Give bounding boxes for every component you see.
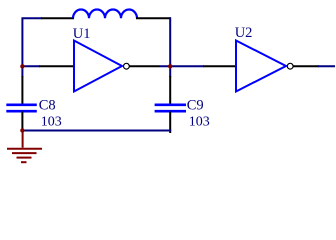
node junction ground [20, 128, 24, 132]
op-amp U2 inverter triangle [236, 41, 286, 92]
inductor right pin [136, 17, 171, 19]
C9 bottom pin [169, 112, 171, 134]
svg-text:C8: C8 [39, 98, 56, 114]
svg-text:U2: U2 [235, 25, 253, 41]
node junction left rail / U1 input [20, 64, 24, 68]
wire bottom (C9 to ground node) [22, 130, 171, 132]
svg-text:103: 103 [189, 115, 210, 130]
U1 input pin [39, 65, 74, 67]
wire right rail upper [169, 17, 171, 77]
U1 output bubble [124, 63, 130, 69]
U1 output pin [129, 65, 159, 67]
wire feedback to U1 input [22, 65, 40, 67]
inductor L1 [73, 9, 137, 18]
C9 top pin [169, 76, 171, 104]
svg-text:U1: U1 [73, 26, 91, 42]
wire U1 output to U2 input [159, 65, 204, 67]
U2 input pin [203, 65, 236, 67]
wire output right [318, 65, 335, 67]
wire top-left (corner + left rail upper segment) [22, 18, 42, 77]
inductor left pin [41, 17, 74, 19]
node junction right rail / U1 output [168, 64, 172, 68]
C8 top pin [21, 76, 23, 104]
svg-text:C9: C9 [187, 98, 204, 114]
C8 bottom pin [21, 112, 23, 130]
svg-text:103: 103 [41, 115, 62, 130]
capacitor C9 [155, 105, 186, 111]
ground [7, 131, 42, 163]
U2 output bubble [287, 63, 293, 69]
U2 output pin [293, 65, 319, 67]
capacitor C8 [6, 105, 37, 111]
op-amp U1 inverter triangle [74, 41, 122, 92]
